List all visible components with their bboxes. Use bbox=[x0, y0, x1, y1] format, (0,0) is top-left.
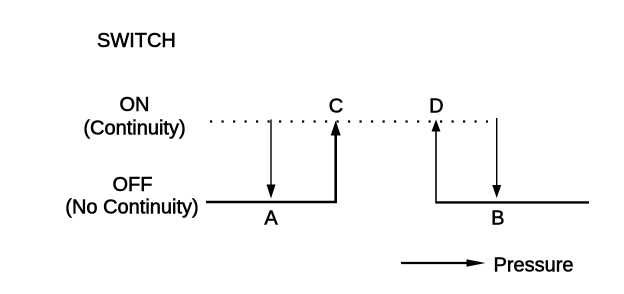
svg-text:SWITCH: SWITCH bbox=[97, 30, 176, 52]
svg-text:ON: ON bbox=[120, 94, 150, 116]
svg-text:A: A bbox=[264, 208, 278, 230]
wire: right OFF-level line bbox=[436, 201, 589, 203]
svg-text:(No Continuity): (No Continuity) bbox=[65, 197, 198, 219]
arrow B (down, ON to OFF) bbox=[492, 118, 501, 198]
svg-text:C: C bbox=[329, 96, 343, 118]
dotted ON-level line bbox=[210, 120, 488, 122]
arrow A (down, ON to OFF) bbox=[267, 120, 276, 199]
svg-text:(Continuity): (Continuity) bbox=[83, 118, 185, 140]
wire: left OFF-level line bbox=[206, 201, 337, 203]
svg-text:B: B bbox=[491, 208, 504, 230]
arrow D (up, OFF to ON) bbox=[432, 120, 441, 204]
svg-text:Pressure: Pressure bbox=[494, 255, 574, 277]
svg-text:OFF: OFF bbox=[113, 174, 153, 196]
pressure axis arrow bbox=[401, 259, 486, 267]
svg-text:D: D bbox=[429, 96, 443, 118]
arrow C (up, thick, OFF to ON) bbox=[331, 121, 341, 203]
